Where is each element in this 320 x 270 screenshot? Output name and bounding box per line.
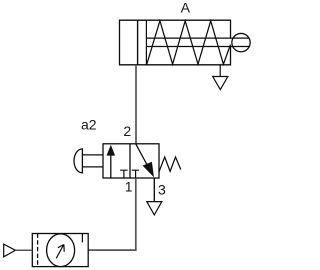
cylinder A rod-end circle	[232, 33, 250, 51]
gauge circle	[47, 234, 75, 267]
piston	[137, 20, 139, 65]
wire valve port 1 down	[88, 178, 136, 250]
valve center divider	[129, 144, 131, 178]
cylinder return spring	[147, 21, 231, 64]
svg-text:A: A	[181, 0, 191, 15]
cylinder exhaust triangle	[213, 77, 228, 90]
svg-text:1: 1	[125, 179, 133, 195]
outlet tick	[81, 234, 83, 243]
valve left-box flow arrow (1 to 2)	[110, 155, 112, 178]
pushbutton mushroom cap	[74, 149, 82, 173]
valve port 3 line	[153, 178, 155, 202]
gauge needle arrow	[56, 245, 64, 259]
compressed air source triangle	[4, 244, 16, 257]
svg-text:2: 2	[123, 123, 131, 139]
air service unit body	[32, 234, 88, 267]
valve exhaust triangle	[147, 202, 162, 215]
valve a2 body	[103, 144, 159, 178]
pushbutton stem	[82, 155, 103, 167]
valve right-box diagonal arrow (2 to 3)	[136, 144, 148, 166]
valve blocked port T (left box)	[120, 170, 127, 178]
wire cylinder to valve port 2	[135, 65, 137, 144]
valve blocked port T (right box)	[132, 170, 139, 178]
wire source triangle to unit	[15, 249, 32, 251]
valve return spring	[159, 157, 181, 172]
svg-text:a2: a2	[81, 116, 97, 132]
svg-text:3: 3	[158, 182, 166, 198]
cylinder A body	[120, 20, 231, 65]
filter dashed line	[37, 234, 39, 267]
cylinder exhaust line	[219, 65, 221, 77]
piston rod	[146, 37, 249, 39]
